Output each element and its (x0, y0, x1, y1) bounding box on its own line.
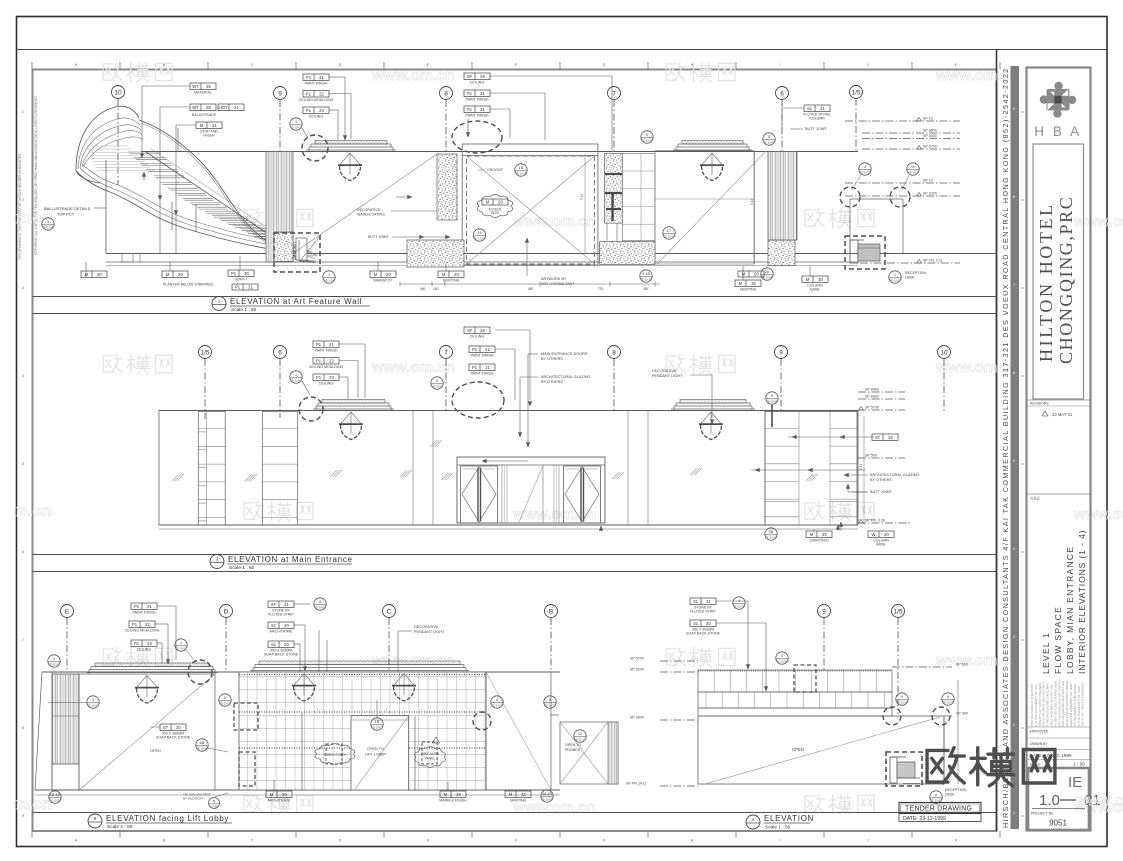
dashed circle e3 left (188, 660, 212, 684)
svg-text:9: 9 (822, 608, 826, 615)
svg-text:M: M (911, 165, 914, 169)
svg-text:m.cn: m.cn (14, 503, 51, 520)
elevation 2 title divider top (33, 554, 997, 556)
svg-text:M: M (374, 272, 378, 277)
svg-text:1/5: 1/5 (200, 349, 209, 356)
pendant e2 entrance (341, 412, 352, 424)
svg-text:26: 26 (206, 84, 211, 89)
svg-text:www.om.cn: www.om.cn (371, 652, 455, 669)
fe circles e3 right (219, 694, 231, 706)
elevation 2 title divider bottom (33, 571, 997, 573)
svg-text:G: G (603, 63, 606, 67)
svg-text:CEILING: CEILING (319, 382, 334, 386)
svg-text:FE-10-14: FE-10-14 (474, 237, 485, 241)
HBA logo pinwheel (1040, 82, 1077, 118)
svg-text:P1: P1 (134, 604, 140, 609)
svg-text:6: 6 (780, 90, 784, 97)
cornice near col 6 (682, 141, 743, 145)
dashed circles e4 (883, 707, 901, 725)
svg-text:(SKIRTING): (SKIRTING) (809, 539, 828, 543)
svg-text:RECEPTION: RECEPTION (905, 271, 926, 275)
fe circle e3 bottom right (541, 790, 553, 802)
svg-text:5.14: 5.14 (859, 464, 863, 470)
pendant near col 6 (702, 153, 713, 165)
svg-text:CEILING MOULDING: CEILING MOULDING (125, 629, 160, 633)
light watermark row 3 (103, 354, 172, 374)
revisions label (1027, 399, 1091, 401)
fe circle e4 tiles (776, 652, 788, 664)
svg-text:21: 21 (248, 284, 253, 289)
svg-text:21: 21 (319, 75, 324, 80)
pendant e2 col9 (701, 412, 712, 424)
svg-text:P1: P1 (316, 375, 322, 380)
svg-text:21: 21 (480, 91, 485, 96)
glazing strip G1 (198, 412, 225, 526)
left margin fold numbers (22, 110, 24, 818)
svg-text:680: 680 (528, 287, 534, 291)
svg-text:5: 5 (436, 379, 438, 383)
svg-text:4: 4 (92, 698, 94, 702)
svg-text:SP 3300: SP 3300 (923, 192, 937, 196)
grid bubble 6 (776, 87, 789, 100)
svg-text:FE-10-41: FE-10-41 (664, 235, 675, 239)
svg-text:SP FFL 0.00: SP FFL 0.00 (865, 519, 885, 523)
svg-text:G: G (603, 839, 606, 843)
elevation 2 ceiling line (159, 410, 858, 412)
top ruler letters (75, 63, 958, 67)
svg-text:C: C (251, 63, 254, 67)
svg-text:BY OTHERS: BY OTHERS (541, 380, 563, 384)
svg-text:FE-10-11: FE-10-11 (575, 738, 586, 742)
svg-text:5: 5 (768, 135, 770, 139)
grid bubble 9 (274, 87, 287, 100)
svg-text:OPEN TO: OPEN TO (367, 747, 384, 751)
fe circle 1 near 9 (290, 118, 302, 130)
column A base stipple (274, 232, 293, 262)
svg-text:BASE: BASE (876, 543, 886, 547)
dashed callout rect column A base (274, 233, 320, 272)
svg-text:Scale 1 : 50: Scale 1 : 50 (765, 825, 791, 831)
svg-text:21: 21 (485, 365, 490, 370)
svg-text:S1: S1 (693, 599, 699, 604)
tender date box (899, 814, 981, 822)
callout dashed ellipse col8 (452, 121, 502, 153)
below floor tags e2 (765, 528, 777, 540)
svg-text:BUTT JOINT: BUTT JOINT (368, 235, 390, 239)
svg-text:RECEPTION: RECEPTION (945, 788, 966, 792)
title label (1027, 493, 1091, 495)
svg-text:1 : 50: 1 : 50 (1073, 762, 1085, 768)
dashed detail rect e4 (794, 665, 816, 692)
svg-text:ELEVATION at Art Feature W: ELEVATION at Art Feature Wall (230, 297, 362, 306)
column base tag (802, 276, 828, 283)
svg-text:FE-10-4: FE-10-4 (432, 385, 442, 389)
svg-text:HIRSCH/BEDNER AND ASSOCIATES: HIRSCH/BEDNER AND ASSOCIATES DESIGN CONS… (1001, 67, 1010, 828)
svg-text:CEILING MOULDING: CEILING MOULDING (309, 365, 344, 369)
svg-text:21: 21 (234, 105, 239, 110)
big dark watermark (927, 748, 1055, 786)
tag group e3 mid (268, 601, 294, 608)
drawing frame (33, 70, 997, 832)
fe circles e4 right (896, 693, 908, 705)
svg-text:PROJECT No: PROJECT No (1031, 812, 1053, 816)
fe circle 15 (473, 229, 485, 241)
right wall e3 (486, 672, 551, 790)
elevation 1 floor lines (106, 253, 996, 255)
svg-text:20: 20 (754, 271, 759, 276)
svg-text:23: 23 (147, 641, 152, 646)
stair fan closure (76, 171, 100, 183)
svg-text:SP 5700: SP 5700 (630, 657, 644, 661)
elevation 1 title (212, 297, 226, 311)
column A base step (299, 260, 316, 262)
stipple pier col7 (605, 153, 623, 223)
svg-text:COLUMN: COLUMN (809, 117, 825, 121)
svg-text:1: 1 (47, 220, 49, 224)
svg-text:CHONGQING,PRC: CHONGQING,PRC (1056, 196, 1076, 364)
svg-text:PAINT FINISH: PAINT FINISH (132, 611, 155, 615)
leaders e2 col7 (339, 343, 365, 345)
callout dashed circle stair (302, 135, 328, 161)
svg-text:FE-10-01: FE-10-01 (176, 647, 187, 651)
svg-text:21: 21 (820, 106, 825, 111)
stair treads upper fan (86, 146, 154, 171)
svg-text:23 MAY 01: 23 MAY 01 (1052, 412, 1073, 417)
grid bubble 1/5 e2 (199, 346, 212, 359)
svg-text:FE-10-04: FE-10-04 (642, 139, 653, 143)
svg-text:FE-10-01: FE-10-01 (291, 379, 302, 383)
svg-text:5.14: 5.14 (750, 199, 754, 205)
svg-text:SF: SF (467, 74, 473, 79)
svg-text:PLANTER BELOW STAIR/WSL: PLANTER BELOW STAIR/WSL (163, 283, 214, 287)
svg-text:OPEN: OPEN (792, 747, 804, 752)
svg-text:4: 4 (22, 374, 24, 378)
tag group e3 colD (131, 603, 157, 610)
svg-text:20: 20 (454, 272, 459, 277)
directory cloud (315, 744, 355, 765)
leaders col9 (329, 76, 345, 78)
svg-text:CEILING MOULDING: CEILING MOULDING (299, 98, 334, 102)
svg-text:www.om.cn: www.om.cn (1073, 506, 1123, 523)
alarm cloud (415, 747, 446, 768)
svg-text:M: M (739, 281, 743, 286)
svg-text:FE-10-04: FE-10-04 (764, 141, 775, 145)
svg-text:DRAWN BY: DRAWN BY (1030, 742, 1049, 746)
svg-text:P1: P1 (467, 107, 473, 112)
svg-text:BY OTHERS: BY OTHERS (541, 357, 563, 361)
title block outer border (1027, 68, 1091, 831)
svg-text:22: 22 (145, 622, 150, 627)
svg-text:20: 20 (386, 272, 391, 277)
svg-text:4A 4B: 4A 4B (542, 792, 553, 796)
svg-text:SF: SF (271, 602, 277, 607)
project name box (1033, 144, 1084, 399)
svg-text:THIS DRAWING IS THE PROPERTY O: THIS DRAWING IS THE PROPERTY OF HIRSCH B… (18, 154, 22, 260)
svg-text:FE-10-07: FE-10-07 (88, 704, 99, 708)
svg-text:SP 500: SP 500 (865, 454, 877, 458)
svg-text:PAINT FINISH: PAINT FINISH (470, 354, 493, 358)
svg-text:Scale 1 : 50: Scale 1 : 50 (231, 307, 257, 313)
svg-text:SP 8300: SP 8300 (923, 134, 937, 138)
svg-text:ST: ST (163, 725, 169, 730)
st tag e3 (160, 724, 186, 731)
svg-text:APPROVED: APPROVED (1030, 730, 1049, 734)
svg-text:1: 1 (328, 273, 330, 277)
svg-text:Scale 1 : 50: Scale 1 : 50 (107, 824, 133, 830)
leaders e3 colD (157, 605, 176, 607)
svg-text:P1: P1 (467, 91, 473, 96)
svg-text:FE-10-05: FE-10-05 (897, 701, 908, 705)
fe circle lift header (371, 718, 383, 730)
top ruler ticks (32, 62, 1000, 69)
elevation 3 ceiling line (42, 671, 560, 673)
approved row (1027, 726, 1091, 728)
svg-text:H: H (691, 839, 694, 843)
svg-text:26: 26 (480, 328, 485, 333)
svg-text:S1: S1 (271, 642, 277, 647)
svg-text:FE-10-0B: FE-10-0B (196, 747, 207, 751)
grid bubble D (220, 605, 233, 618)
top binding strip line (17, 49, 1108, 51)
svg-text:M: M (810, 532, 814, 537)
right double door (564, 466, 601, 523)
svg-text:MARBLE FINISH: MARBLE FINISH (439, 799, 467, 803)
fe circle e3 left1 (48, 655, 60, 667)
svg-text:P1: P1 (134, 641, 140, 646)
left X wall e3 (79, 674, 215, 790)
coursed block strip col7 (622, 153, 655, 240)
fe circle 1B art (515, 164, 527, 176)
art wall panel (462, 144, 598, 265)
svg-text:1B 4B: 1B 4B (50, 793, 61, 797)
svg-text:PAINT FINISH: PAINT FINISH (465, 98, 488, 102)
svg-text:FE-10-05: FE-10-05 (50, 799, 61, 803)
svg-text:D: D (339, 63, 342, 67)
svg-text:GROOVE: GROOVE (487, 168, 503, 172)
svg-text:1B: 1B (375, 720, 380, 724)
svg-text:BALLUSTRADE DETAILS: BALLUSTRADE DETAILS (44, 206, 91, 211)
svg-text:FE-10-05: FE-10-05 (542, 798, 553, 802)
svg-text:PAINT FINISH: PAINT FINISH (314, 349, 337, 353)
svg-text:FINISH: FINISH (203, 134, 215, 138)
svg-text:1.0: 1.0 (1039, 792, 1060, 809)
svg-text:30: 30 (818, 277, 823, 282)
levels left e4 (660, 660, 698, 662)
svg-text:H B A: H B A (1034, 124, 1082, 139)
svg-text:SKIRTING: SKIRTING (510, 799, 527, 803)
stair bottom steps (289, 257, 312, 262)
accent tile cloud (477, 195, 512, 218)
svg-text:21: 21 (329, 342, 334, 347)
svg-text:S1: S1 (693, 621, 699, 626)
elevation 3 floor lines (35, 789, 560, 791)
svg-text:Scale 1 : 50: Scale 1 : 50 (229, 565, 255, 571)
svg-text:CEILING: CEILING (470, 81, 485, 85)
svg-text:BUTT JOINT: BUTT JOINT (870, 490, 893, 494)
svg-text:20: 20 (706, 621, 711, 626)
svg-text:10: 10 (114, 89, 122, 96)
svg-text:20: 20 (822, 532, 827, 537)
entrance door assembly (457, 457, 605, 523)
svg-text:5.14: 5.14 (580, 194, 584, 200)
elevation 1 title divider bottom (33, 313, 997, 315)
svg-text:FLUTED STRIP: FLUTED STRIP (268, 613, 294, 617)
tag group e4 (690, 598, 716, 605)
marble tag e3 (440, 791, 466, 798)
svg-text:8: 8 (444, 90, 448, 97)
svg-text:5: 5 (781, 654, 783, 658)
svg-text:ARTWORK BY: ARTWORK BY (541, 277, 567, 281)
svg-text:21: 21 (147, 604, 152, 609)
svg-text:1/5: 1/5 (893, 608, 902, 615)
reception dashed circles (840, 187, 860, 207)
grid bubble C (383, 605, 396, 618)
tile band e4 row2 (698, 692, 892, 708)
svg-text:FLUTED STRIP: FLUTED STRIP (690, 610, 716, 614)
svg-text:OPEN TO: OPEN TO (565, 743, 581, 747)
svg-text:P1: P1 (316, 358, 322, 363)
cornice e3 mid (259, 661, 460, 665)
svg-text:I: I (780, 839, 781, 843)
svg-text:TILES: TILES (491, 211, 500, 215)
svg-text:www.om.cn: www.om.cn (1073, 213, 1123, 230)
fe circle e3 left2 (87, 696, 99, 708)
tiled wall right e2 (765, 412, 857, 526)
svg-text:PAINT FINISH: PAINT FINISH (304, 82, 327, 86)
svg-text:20: 20 (884, 532, 889, 537)
elevation 4 title (746, 815, 760, 829)
svg-text:PAINT FINISH: PAINT FINISH (470, 372, 493, 376)
svg-text:20: 20 (176, 725, 181, 730)
svg-text:23: 23 (329, 375, 334, 380)
svg-text:P1: P1 (132, 622, 138, 627)
wall panel col6 (655, 151, 754, 264)
svg-text:DIRECTORY: DIRECTORY (324, 753, 347, 757)
svg-text:P1: P1 (306, 75, 312, 80)
fe circle e3 bottom left (49, 791, 61, 803)
tender drawing box (899, 803, 981, 814)
fluted column D tag (804, 105, 830, 112)
svg-text:FE-10-06: FE-10-06 (49, 663, 60, 667)
grid bubble 8 (440, 87, 453, 100)
svg-text:DATE: 23-12-1999: DATE: 23-12-1999 (903, 816, 946, 822)
svg-text:MATERIAL: MATERIAL (194, 91, 212, 95)
vertical dim e2 (863, 416, 865, 525)
grid bubble 10 (112, 86, 125, 99)
fe circle e2 cornice1 (290, 371, 302, 383)
svg-text:FE-10-05: FE-10-05 (777, 660, 788, 664)
svg-text:FLOW SPACE: FLOW SPACE (1053, 606, 1063, 674)
svg-text:FE-10-01: FE-10-01 (372, 726, 383, 730)
fold bar ticks (1021, 112, 1025, 816)
svg-text:ARCHITRAVE: ARCHITRAVE (270, 630, 293, 634)
pendant e3 left (137, 676, 148, 688)
svg-text:J: J (867, 63, 869, 67)
grid bubble 6 e2 (274, 346, 287, 359)
drawing frame right heavy edge (996, 50, 998, 832)
svg-text:4: 4 (496, 698, 498, 702)
pier col7 lower shaft (606, 223, 608, 241)
svg-text:PHONES: PHONES (565, 748, 581, 752)
svg-text:20: 20 (97, 272, 102, 277)
svg-text:450: 450 (420, 287, 426, 291)
svg-text:1: 1 (295, 120, 297, 124)
phones block e4 (560, 722, 618, 784)
svg-text:5: 5 (224, 696, 226, 700)
svg-text:FE-10-05: FE-10-05 (734, 605, 745, 609)
pendant at art wall (340, 153, 351, 165)
fe circle e3 cornice (175, 639, 187, 651)
svg-text:26: 26 (206, 105, 211, 110)
tag group e2 col8 (464, 327, 490, 334)
level right e3 (551, 714, 560, 716)
leaders col8 (490, 75, 612, 77)
svg-text:SP 530: SP 530 (956, 663, 968, 667)
cornice e3 left (95, 663, 209, 667)
svg-text:20: 20 (498, 199, 503, 204)
pier col7 dark fittings (605, 173, 622, 175)
svg-text:30: 30 (244, 271, 249, 276)
svg-text:FE-10-1B: FE-10-1B (640, 278, 651, 282)
svg-text:PENDANT LIGHT: PENDANT LIGHT (652, 374, 683, 378)
fluted column A (266, 152, 293, 263)
granite base col D (768, 240, 795, 266)
svg-text:E: E (65, 608, 70, 615)
svg-text:22: 22 (319, 91, 324, 96)
svg-text:BUTT JOINT: BUTT JOINT (805, 127, 828, 131)
svg-text:6B: 6B (200, 741, 205, 745)
stair recess wall line (105, 160, 107, 254)
grid bubble E (61, 605, 74, 618)
svg-text:2: 2 (53, 657, 55, 661)
svg-text:6: 6 (319, 600, 321, 604)
svg-text:FE-10-08: FE-10-08 (43, 226, 54, 230)
stair treads main flight (128, 152, 318, 256)
grid bubble 7 e2 (440, 346, 453, 359)
svg-text:FE-10-01: FE-10-01 (291, 126, 302, 130)
elevation 1 ceiling line (141, 151, 858, 153)
large dashed ellipse e2 (452, 382, 504, 418)
svg-text:7: 7 (612, 90, 616, 97)
svg-text:SP 13: SP 13 (923, 117, 933, 121)
svg-text:2: 2 (22, 198, 24, 202)
svg-text:20: 20 (456, 792, 461, 797)
glass slashes e2 (172, 474, 179, 481)
grid bubble 7 (608, 87, 621, 100)
svg-text:BY OTHERS: BY OTHERS (870, 478, 892, 482)
svg-text:8: 8 (612, 349, 616, 356)
door glass slashes (441, 473, 448, 480)
reception desk dashed box (845, 236, 885, 269)
svg-text:20: 20 (178, 272, 183, 277)
svg-text:SP FFL (A1): SP FFL (A1) (626, 782, 646, 786)
svg-text:20: 20 (284, 642, 289, 647)
svg-text:SP 2800: SP 2800 (630, 716, 644, 720)
svg-text:REVISIONS: REVISIONS (1030, 402, 1049, 406)
svg-text:6: 6 (278, 349, 282, 356)
svg-text:HDT: HDT (219, 105, 228, 110)
svg-text:C: C (251, 839, 254, 843)
svg-text:M: M (444, 792, 448, 797)
svg-text:IE: IE (1068, 774, 1082, 791)
skirting tag e3 (505, 791, 531, 798)
st tag e1 leader arrow (396, 196, 408, 198)
svg-text:7: 7 (22, 638, 24, 642)
svg-text:23: 23 (319, 108, 324, 113)
svg-text:SP 10: SP 10 (923, 179, 933, 183)
svg-text:CEILING: CEILING (309, 115, 324, 119)
svg-text:BALUSTRADE: BALUSTRADE (192, 113, 217, 117)
